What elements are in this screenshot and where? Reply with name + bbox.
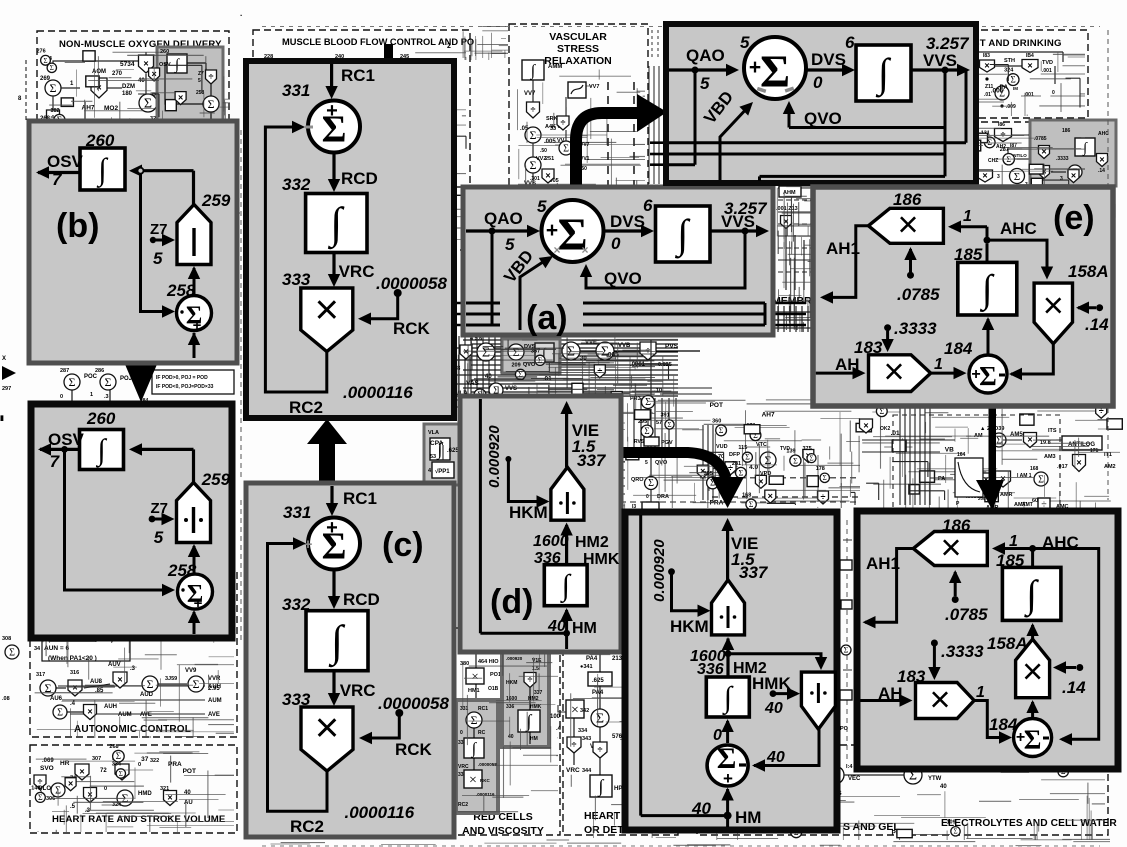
svg-text:334: 334 <box>578 728 588 734</box>
svg-text:VRC: VRC <box>339 262 375 281</box>
highlighted region source of (b) <box>157 47 223 122</box>
svg-text:140: 140 <box>31 785 40 791</box>
svg-text:VV2: VV2 <box>536 156 546 162</box>
svg-text:.0785: .0785 <box>1034 136 1047 142</box>
svg-text:336: 336 <box>506 704 515 710</box>
svg-text:POJ: POJ <box>120 376 132 382</box>
svg-text:IB4: IB4 <box>1026 53 1034 59</box>
svg-text:÷: ÷ <box>598 745 603 755</box>
svg-text:40: 40 <box>184 790 191 796</box>
wire RCD gray <box>328 570 380 610</box>
svg-text:VEC: VEC <box>848 776 861 782</box>
svg-text:7: 7 <box>50 452 61 471</box>
svg-text:Σ: Σ <box>1014 171 1020 183</box>
svg-text:VV7: VV7 <box>589 84 599 90</box>
svg-text:PVS: PVS <box>665 343 679 350</box>
svg-text:Σ: Σ <box>471 713 478 727</box>
svg-text:VVS: VVS <box>505 386 517 392</box>
multiplier 183 enlarged <box>897 667 974 720</box>
svg-text:1600: 1600 <box>506 696 517 702</box>
svg-text:.625: .625 <box>447 448 459 454</box>
background section VASCULAR STRESS RELAXATION <box>509 24 648 224</box>
svg-text:RC2: RC2 <box>458 802 468 808</box>
svg-text:AH7: AH7 <box>762 412 775 419</box>
multiplier 333 enlarged <box>282 270 353 352</box>
svg-text:+: + <box>723 769 733 788</box>
svg-text:200: 200 <box>978 496 986 501</box>
wire summer to 158A enlarged <box>1026 700 1038 718</box>
node HM enlarged <box>724 812 732 820</box>
svg-text:Σ: Σ <box>745 453 750 462</box>
svg-text:0: 0 <box>60 394 63 400</box>
svg-text:AM3: AM3 <box>1044 454 1056 460</box>
label (a) <box>526 299 568 337</box>
wire summer to divider <box>188 266 200 294</box>
node OSV feedback junction <box>61 446 68 453</box>
svg-text:×: × <box>1099 155 1104 165</box>
wire left feedback d enlarged <box>639 515 642 816</box>
node HM2 junction <box>725 650 732 657</box>
svg-text:334: 334 <box>112 762 122 768</box>
svg-text:.001 Z13: .001 Z13 <box>776 206 798 212</box>
highlighted region source of (d) <box>502 652 549 747</box>
svg-text:332: 332 <box>282 175 311 194</box>
svg-text:IM: IM <box>1013 86 1018 91</box>
svg-text:281: 281 <box>732 461 741 467</box>
wire QAO input enlarged <box>669 46 739 93</box>
svg-text:1: 1 <box>934 356 943 373</box>
panel enlarged (d) <box>625 512 837 830</box>
svg-text:+: + <box>749 56 761 79</box>
panel enlarged (a) <box>666 24 976 183</box>
svg-text:×: × <box>553 243 560 257</box>
svg-text:AUN = 6: AUN = 6 <box>44 645 69 652</box>
wire VRC <box>328 253 375 288</box>
svg-text:.3333: .3333 <box>1056 156 1069 162</box>
svg-text:.017: .017 <box>1057 464 1068 470</box>
svg-text:PA: PA <box>1000 84 1009 91</box>
wire into integrator 260 <box>129 165 194 177</box>
svg-text:.0000116: .0000116 <box>345 803 415 822</box>
panel (e) antidiuretic hormone zoom <box>813 187 1113 406</box>
svg-text:AND VISCOSITY: AND VISCOSITY <box>462 825 544 837</box>
svg-text:213: 213 <box>612 656 623 662</box>
summer 184 enlarged <box>989 715 1052 757</box>
background texture muscle section innards <box>256 65 467 250</box>
svg-text:180: 180 <box>122 91 133 97</box>
svg-text:VVS: VVS <box>721 212 755 231</box>
svg-text:QVO: QVO <box>604 269 642 288</box>
svg-text:÷: ÷ <box>597 366 602 376</box>
wire AH input <box>816 355 866 379</box>
background bus line stubs outside panels <box>440 143 806 505</box>
svg-text:Σ: Σ <box>482 346 490 361</box>
svg-text:Σ: Σ <box>119 770 123 778</box>
wire HM2 into divider <box>533 523 620 569</box>
svg-text:STH: STH <box>1004 58 1015 64</box>
svg-text:×: × <box>1022 651 1043 692</box>
svg-text:I:4: I:4 <box>846 764 853 770</box>
integrator 336 enlarged <box>706 677 749 717</box>
svg-text:Σ: Σ <box>749 500 754 509</box>
svg-text:Σ: Σ <box>1010 75 1015 85</box>
svg-text:X: X <box>2 356 6 362</box>
svg-text:×: × <box>897 204 918 245</box>
svg-text:342: 342 <box>580 708 589 714</box>
svg-text:CPA: CPA <box>430 440 444 447</box>
svg-text:RC1: RC1 <box>343 489 377 508</box>
svg-text:∫: ∫ <box>95 433 107 468</box>
wire AHC to 186 enlarged <box>992 533 1033 555</box>
svg-text:0.000920: 0.000920 <box>651 539 668 602</box>
svg-text:RC2: RC2 <box>290 817 324 836</box>
panel (d) red cells zoom <box>460 396 621 652</box>
svg-text:287: 287 <box>1000 147 1009 153</box>
svg-text:1: 1 <box>90 392 93 398</box>
svg-text:182: 182 <box>50 108 59 114</box>
wire VVS output enlarged <box>911 34 970 76</box>
svg-text:÷: ÷ <box>572 740 577 750</box>
svg-text:×: × <box>571 703 579 718</box>
svg-text:.14: .14 <box>1062 678 1086 697</box>
svg-text:AMT: AMT <box>1022 502 1033 508</box>
svg-text:×: × <box>68 779 73 789</box>
wire left feedback d gray <box>479 399 482 633</box>
svg-text:ITS: ITS <box>1048 428 1057 434</box>
svg-text:37: 37 <box>141 756 149 763</box>
svg-text:Σ: Σ <box>648 478 654 489</box>
svg-text:Σ: Σ <box>760 45 790 96</box>
highlighted region source of (c) <box>456 700 498 813</box>
svg-text:Σ: Σ <box>193 677 200 691</box>
svg-text:186: 186 <box>1062 128 1071 134</box>
summer 331 <box>283 503 360 570</box>
svg-text:.0785: .0785 <box>945 605 988 624</box>
svg-text:÷: ÷ <box>561 118 566 128</box>
svg-text:3: 3 <box>997 174 1000 180</box>
svg-text:Z7: Z7 <box>198 71 204 77</box>
svg-text:+: + <box>546 219 558 242</box>
svg-text:5: 5 <box>505 235 515 254</box>
svg-text:269: 269 <box>40 76 51 82</box>
svg-text:0: 0 <box>138 762 141 768</box>
svg-text:×: × <box>883 351 904 392</box>
multiplier 158A <box>1034 262 1109 344</box>
svg-text:HM: HM <box>735 808 761 827</box>
highlighted region source of (e) <box>1030 120 1116 186</box>
svg-text:(a): (a) <box>526 299 568 337</box>
background section NON-MUSCLE OXYGEN DELIVERY <box>37 31 229 247</box>
svg-text:259: 259 <box>201 470 231 489</box>
svg-text:1: 1 <box>976 684 985 701</box>
node constant .3333 <box>881 319 937 352</box>
node VVS enlarged <box>942 67 949 74</box>
svg-text:5: 5 <box>700 74 710 93</box>
panel (c) muscle blood flow zoom <box>246 483 454 837</box>
svg-text:287: 287 <box>60 368 69 374</box>
svg-text:Z7: Z7 <box>151 500 169 517</box>
svg-text:3: 3 <box>1060 176 1063 182</box>
svg-text:Σ: Σ <box>1038 475 1044 486</box>
svg-text:OK2: OK2 <box>880 426 891 432</box>
svg-text:178: 178 <box>816 466 825 472</box>
background dashed verticals above panel a <box>530 82 634 186</box>
svg-text:YTW: YTW <box>928 776 942 782</box>
svg-text:∫: ∫ <box>722 681 734 716</box>
summer 258 <box>166 281 212 334</box>
svg-text:2.95: 2.95 <box>208 686 220 692</box>
svg-text:HM: HM <box>530 736 538 742</box>
svg-text:●341: ●341 <box>580 664 593 670</box>
node QAO enlarged <box>692 67 699 74</box>
svg-text:0: 0 <box>104 786 107 792</box>
node constant .14 <box>1076 302 1109 335</box>
svg-text:33: 33 <box>550 126 556 132</box>
label (c) <box>382 526 424 564</box>
svg-text:40: 40 <box>940 784 947 790</box>
svg-text:Σ: Σ <box>644 426 649 436</box>
svg-text:.01: .01 <box>891 430 900 437</box>
node Z7 <box>150 221 175 268</box>
svg-text:VLA: VLA <box>428 430 439 436</box>
svg-text:260: 260 <box>86 409 116 428</box>
multiplier 158A enlarged <box>987 634 1050 698</box>
svg-text:Σ: Σ <box>996 436 1002 447</box>
zoom arrow from (a) to enlarged (a) <box>576 94 667 192</box>
svg-text:395: 395 <box>704 471 713 477</box>
svg-text:337: 337 <box>577 451 607 470</box>
svg-text:.0000116: .0000116 <box>476 792 495 797</box>
wire 158A to 185 enlarged <box>1026 623 1038 639</box>
svg-text:164: 164 <box>957 452 966 458</box>
node Z7 enlarged <box>149 500 175 547</box>
wire HM into integrator <box>547 608 597 637</box>
svg-text:109: 109 <box>947 819 956 825</box>
svg-text:×: × <box>143 59 148 69</box>
label (d) <box>490 583 533 621</box>
wire AH1 output <box>820 226 869 304</box>
svg-text:QAO: QAO <box>686 46 725 65</box>
svg-text:AH1: AH1 <box>826 239 860 258</box>
svg-text:HEART RATE AND STROKE VOLUME: HEART RATE AND STROKE VOLUME <box>52 814 226 825</box>
svg-text:QRO: QRO <box>631 477 644 483</box>
svg-text:RC1: RC1 <box>478 706 488 712</box>
svg-text:Σ: Σ <box>823 474 827 482</box>
svg-text:40: 40 <box>764 700 783 717</box>
panel enlarged (c) <box>246 61 454 418</box>
background central circulatory mesh <box>452 336 700 452</box>
svg-text:SRK: SRK <box>546 116 558 122</box>
background bottom right sections <box>694 745 1117 835</box>
background lines between d gray panel and d black panel <box>560 455 860 502</box>
wire DVS enlarged <box>806 50 855 92</box>
svg-text:×: × <box>863 421 868 431</box>
svg-text:VASCULAR: VASCULAR <box>549 31 607 43</box>
svg-text:×: × <box>1043 285 1064 326</box>
svg-text:60: 60 <box>1032 498 1038 504</box>
svg-text:I AM 1: I AM 1 <box>1017 473 1032 479</box>
svg-text:.005: .005 <box>606 351 619 358</box>
wire AHC to multiplier 158A <box>987 240 1053 279</box>
summer 5 gray <box>537 197 604 262</box>
svg-text:VB: VB <box>945 447 954 454</box>
wire RC2 feedback loop <box>268 537 415 836</box>
svg-text:VUD: VUD <box>716 444 728 450</box>
svg-text:(When PA1<20 ): (When PA1<20 ) <box>48 655 97 662</box>
wire integrator to divider enlarged <box>690 637 767 678</box>
summer 258 enlarged <box>167 561 213 612</box>
integrator 185 <box>954 244 1017 315</box>
svg-text:331: 331 <box>283 503 311 522</box>
multiplier 186 <box>868 190 943 245</box>
svg-text:Σ: Σ <box>43 57 47 65</box>
wire VRC gray <box>328 671 376 706</box>
svg-text:×: × <box>1027 61 1032 71</box>
svg-text:.0000116: .0000116 <box>343 383 413 402</box>
node constant .0785 enlarged <box>945 570 988 624</box>
svg-text:.000920: .000920 <box>506 656 523 661</box>
integrator 260 <box>80 131 125 190</box>
svg-text:268: 268 <box>109 744 118 750</box>
background extra vertical bundles and dashes <box>33 27 1108 641</box>
svg-text:.001: .001 <box>1024 92 1034 98</box>
svg-text:VRC: VRC <box>566 767 580 774</box>
svg-text:×: × <box>929 679 950 720</box>
svg-text:÷: ÷ <box>821 492 826 502</box>
svg-text:DFP: DFP <box>729 452 740 458</box>
svg-text:5734: 5734 <box>120 61 135 68</box>
svg-text:Σ: Σ <box>793 456 798 465</box>
background section THIRST AND DRINKING <box>838 30 1088 188</box>
svg-text:(d): (d) <box>490 583 533 621</box>
svg-text:AUD: AUD <box>140 692 154 698</box>
svg-text:VRC: VRC <box>458 764 469 770</box>
integrator 332 <box>282 595 368 671</box>
svg-text:337: 337 <box>739 563 769 582</box>
svg-text:(b): (b) <box>56 207 99 245</box>
svg-text:168: 168 <box>1030 466 1039 472</box>
background texture upper-left section innards <box>35 48 240 247</box>
divider HMK enlarged <box>801 672 835 729</box>
background section MUSCLE BLOOD FLOW CONTROL <box>253 30 474 250</box>
svg-text:276: 276 <box>37 48 46 54</box>
svg-text:HKM: HKM <box>506 680 517 686</box>
svg-text:AM5: AM5 <box>1010 432 1023 438</box>
svg-text:1: 1 <box>1009 533 1018 550</box>
svg-text:168: 168 <box>742 492 751 498</box>
svg-text:Σ: Σ <box>645 397 651 408</box>
background texture between b black panel and autonomic section <box>34 646 41 652</box>
divider 259 enlarged <box>177 470 231 543</box>
wire VBD input enlarged <box>700 87 757 180</box>
svg-text:Σ: Σ <box>9 648 15 659</box>
wire QVO feedback <box>580 233 745 288</box>
svg-text:Σ: Σ <box>979 361 997 391</box>
divider 337 <box>551 467 584 520</box>
zoom arrow from (c) to enlarged (c) <box>307 419 347 483</box>
svg-text:+: + <box>304 536 313 553</box>
wire feedback OSV to summer enlarged <box>65 449 176 596</box>
svg-text:·: · <box>240 11 243 20</box>
svg-text:VVB: VVB <box>618 343 631 349</box>
divider 337 enlarged <box>712 580 745 635</box>
wire AHC feedback to summer enlarged <box>1033 549 1099 746</box>
svg-text:AM2: AM2 <box>1104 464 1116 470</box>
node constant .14 enlarged <box>1053 661 1086 697</box>
svg-text:.14: .14 <box>1098 168 1105 174</box>
svg-text:RC: RC <box>478 730 486 736</box>
node HKM constant enlarged <box>651 539 711 636</box>
svg-text:STRESS: STRESS <box>557 43 599 55</box>
svg-text:+: + <box>326 100 338 122</box>
summer 331 enlarged <box>282 81 360 153</box>
svg-text:.0000058: .0000058 <box>376 274 447 293</box>
svg-text:RCD: RCD <box>341 169 378 188</box>
svg-text:PGV: PGV <box>661 440 673 446</box>
svg-text:PA: PA <box>938 476 945 482</box>
svg-text:PO1: PO1 <box>490 672 501 678</box>
multiplier 186 enlarged <box>913 516 987 568</box>
svg-text:Σ: Σ <box>38 793 43 802</box>
svg-text:HMK: HMK <box>752 674 791 693</box>
svg-text:.001: .001 <box>1042 68 1052 74</box>
svg-text:34: 34 <box>34 646 41 652</box>
svg-text:PA4: PA4 <box>586 656 598 662</box>
background CPA PPI small blocks <box>430 440 459 478</box>
svg-text:RCK: RCK <box>395 740 433 759</box>
highlighted region left of c panels <box>424 424 460 485</box>
svg-text:.08: .08 <box>2 696 10 702</box>
svg-text:Σ: Σ <box>596 712 604 727</box>
svg-text:.50: .50 <box>540 148 547 154</box>
background membrane dynamics label and mesh <box>772 186 860 328</box>
svg-text:∫: ∫ <box>560 569 572 604</box>
svg-text:53: 53 <box>430 454 436 460</box>
wire HM2 branch to divider HMK <box>728 654 827 670</box>
svg-text:40: 40 <box>508 734 514 740</box>
svg-text:Σ: Σ <box>844 646 849 655</box>
wire VBD input <box>500 246 556 330</box>
svg-text:MUSCLE BLOOD FLOW CONTROL AND: MUSCLE BLOOD FLOW CONTROL AND PO <box>282 37 474 47</box>
node HM <box>563 630 570 637</box>
svg-text:.5: .5 <box>70 804 76 810</box>
wire RC1 input gray <box>326 486 377 516</box>
node AHC <box>984 219 1037 244</box>
svg-text:RCK: RCK <box>393 319 431 338</box>
svg-text:IF POD<0, POJ=POD×33: IF POD<0, POJ=POD×33 <box>156 384 214 390</box>
svg-text:.625: .625 <box>592 678 604 684</box>
svg-text:Σ: Σ <box>513 345 520 359</box>
svg-text:270: 270 <box>112 71 123 77</box>
wire summer to divider enlarged <box>188 544 200 573</box>
svg-text:÷: ÷ <box>531 105 536 115</box>
svg-text:Σ: Σ <box>530 128 537 142</box>
svg-text:POT: POT <box>183 768 196 775</box>
wire into integrator 260 enlarged <box>129 443 194 455</box>
svg-text:258: 258 <box>196 90 205 96</box>
svg-text:HMD: HMD <box>138 791 152 797</box>
svg-text:Σ: Σ <box>147 677 154 691</box>
integrator 336 <box>544 565 587 606</box>
svg-text:2: 2 <box>447 43 451 50</box>
svg-text:+: + <box>971 366 980 383</box>
background ANTILOG block right side <box>966 426 1116 513</box>
label (b) <box>56 207 99 245</box>
background section AUTONOMIC CONTROL <box>30 570 237 737</box>
svg-text:322: 322 <box>150 758 159 764</box>
svg-text:.0785: .0785 <box>897 285 940 304</box>
svg-text:▮: ▮ <box>0 415 4 422</box>
